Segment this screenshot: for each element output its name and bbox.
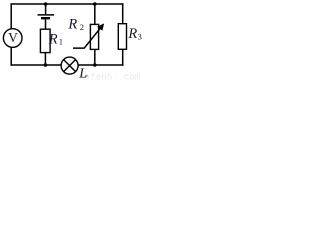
node battery top bbox=[44, 2, 48, 6]
wire R2 drop bbox=[94, 4, 96, 24]
wire battery drop bbox=[45, 4, 47, 14]
node R2 bottom bbox=[93, 63, 97, 67]
svg-text:2: 2 bbox=[80, 22, 84, 32]
rheostat R2 arrowhead bbox=[97, 23, 104, 30]
resistor R1 bbox=[40, 29, 50, 52]
lamp L bbox=[61, 57, 78, 74]
svg-text:L: L bbox=[78, 67, 87, 81]
svg-text:R: R bbox=[127, 26, 137, 42]
rheostat R2 box bbox=[90, 24, 98, 49]
svg-text:3: 3 bbox=[138, 31, 142, 41]
wire bottom left bbox=[11, 64, 62, 66]
wire left lower bbox=[10, 47, 12, 65]
watermark blue dot bbox=[86, 75, 88, 77]
wire right lower bbox=[122, 49, 124, 65]
rheostat R2 slider arm bbox=[73, 28, 100, 48]
svg-text:1: 1 bbox=[59, 37, 63, 47]
wire R1 to bottom bbox=[44, 53, 46, 65]
wire bottom right bbox=[78, 64, 124, 66]
wire R2 to bottom bbox=[94, 49, 96, 65]
node R2 top bbox=[93, 2, 97, 6]
wire left upper bbox=[10, 3, 12, 29]
svg-text:R: R bbox=[48, 31, 58, 47]
wire right upper bbox=[122, 3, 124, 23]
battery long plate bbox=[38, 14, 55, 16]
resistor R3 bbox=[118, 24, 126, 50]
wire top bbox=[11, 3, 124, 5]
wire battery to R1 bbox=[45, 19, 47, 29]
voltmeter V bbox=[3, 29, 22, 48]
node R1 bottom bbox=[44, 63, 48, 67]
svg-text:R: R bbox=[67, 17, 77, 33]
svg-text:V: V bbox=[8, 30, 18, 45]
battery short plate bbox=[41, 17, 50, 19]
